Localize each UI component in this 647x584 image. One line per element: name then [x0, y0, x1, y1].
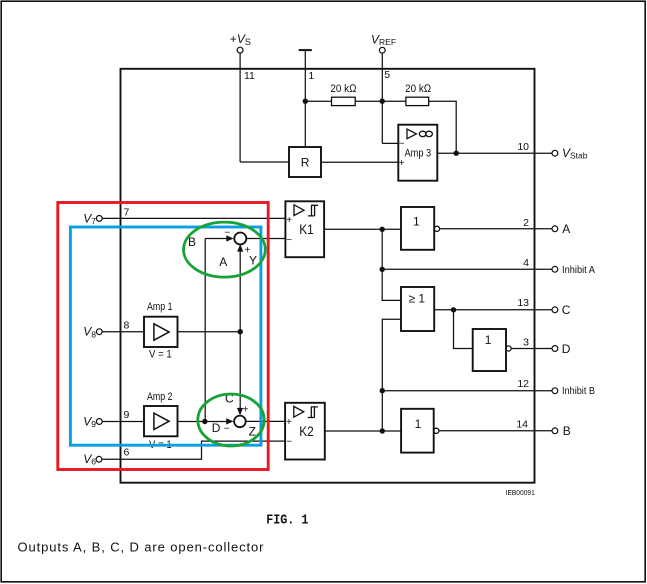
wire Vref to Amp3 minus input	[382, 142, 398, 144]
amplifier Amp2 box	[144, 406, 178, 436]
svg-text:−: −	[286, 437, 292, 448]
junction node Amp1 output	[238, 329, 243, 334]
svg-text:≥ 1: ≥ 1	[409, 292, 426, 306]
resistor R2 20k box	[406, 97, 429, 105]
wire V8 input pin 8	[102, 331, 144, 333]
svg-text:Inhibit B: Inhibit B	[562, 385, 595, 397]
svg-text:−: −	[286, 235, 292, 246]
svg-text:1: 1	[308, 70, 314, 82]
wire inhibit B to pin 12	[382, 390, 552, 392]
amplifier Amp1 box	[144, 317, 178, 347]
Amp3 infinity symbol	[419, 131, 426, 136]
svg-text:Amp 3: Amp 3	[405, 147, 432, 159]
terminal inhibit B pin 12	[552, 388, 558, 394]
svg-text:4: 4	[523, 257, 529, 269]
K2 triangle symbol	[294, 406, 304, 417]
wire Amp3 output pin 10	[437, 152, 552, 154]
svg-text:C: C	[562, 303, 571, 317]
terminal Vstab pin 10	[552, 150, 558, 156]
svg-text:D: D	[212, 421, 221, 435]
svg-text:6: 6	[124, 446, 130, 458]
junction node K2 output	[380, 428, 385, 433]
svg-text:IEB00091: IEB00091	[506, 488, 535, 497]
terminal D pin 3	[552, 346, 558, 352]
svg-text:D: D	[562, 342, 571, 356]
K1 hysteresis step symbol	[308, 205, 318, 216]
svg-text:Amp 1: Amp 1	[147, 301, 173, 313]
wire node1 to resistor R1	[305, 100, 331, 102]
svg-text:8: 8	[124, 319, 130, 331]
wire bus OR gate bottom input down to K2 output	[382, 319, 401, 431]
Amp3 triangle symbol	[407, 129, 416, 139]
wire Amp1 output to A/C vertical	[178, 331, 241, 333]
svg-text:+: +	[286, 417, 292, 428]
svg-text:5: 5	[384, 69, 390, 81]
wire gate 1A output to pin 2	[440, 228, 552, 230]
terminal +Vs	[237, 47, 243, 53]
arrowhead B into node Y	[226, 235, 233, 241]
green overlay ellipse around node Y	[184, 222, 266, 277]
svg-text:K1: K1	[299, 221, 314, 237]
terminal V9	[96, 419, 102, 425]
OR gate >=1 box	[401, 287, 434, 331]
junction node inhibit B	[380, 388, 385, 393]
wire Vref vertical pin 5	[381, 53, 383, 143]
wire node Z to K2 plus	[246, 420, 285, 422]
Amp1 triangle symbol	[154, 324, 169, 340]
svg-text:FIG. 1: FIG. 1	[266, 514, 308, 529]
svg-text:20 kΩ: 20 kΩ	[405, 83, 432, 95]
wire K1 output to gate 1A	[324, 228, 401, 230]
wire B vertical from node Y to Amp2 output	[204, 239, 206, 422]
svg-text:13: 13	[517, 297, 529, 309]
svg-text:A: A	[562, 222, 570, 236]
junction node K1 output	[380, 227, 385, 232]
wire V7 input pin 7 to K1 plus	[102, 217, 285, 219]
wire node Y to K1 minus	[247, 238, 285, 240]
svg-text:2: 2	[523, 217, 529, 229]
svg-text:7: 7	[124, 206, 130, 218]
svg-text:Outputs A, B, C, D are open-co: Outputs A, B, C, D are open-collector	[18, 540, 265, 555]
IC outline box	[121, 69, 535, 483]
svg-text:−: −	[399, 139, 405, 150]
gate 1A output bubble	[434, 226, 439, 231]
svg-text:Amp 2: Amp 2	[147, 391, 173, 403]
wire pin11 to R	[240, 161, 289, 163]
op-amp Amp3 box	[398, 125, 437, 181]
gate 1 (D) box	[473, 329, 506, 371]
svg-text:12: 12	[517, 378, 529, 390]
terminal A pin 2	[552, 226, 558, 232]
junction node Amp2 output	[202, 419, 207, 424]
terminal V6	[96, 456, 102, 462]
wire K2 output to gate 1B	[325, 430, 401, 432]
red overlay rectangle	[58, 203, 268, 470]
wire +Vs vertical pin 11	[239, 53, 241, 162]
svg-text:+: +	[286, 215, 292, 226]
K1 triangle symbol	[294, 205, 304, 216]
svg-text:+: +	[243, 404, 249, 415]
terminal C pin 13	[552, 307, 558, 313]
svg-text:10: 10	[517, 141, 529, 153]
wire pin 1 vertical	[304, 50, 306, 147]
svg-text:Inhibit A: Inhibit A	[562, 264, 595, 276]
junction node pin1/resistors	[303, 99, 308, 104]
terminal B pin 14	[552, 428, 558, 434]
arrowhead D into node Z	[226, 418, 233, 424]
resistor R box	[289, 147, 321, 177]
pin 1 top bar	[299, 49, 312, 51]
wire Amp2 output to D arrow into node Z	[178, 421, 228, 423]
svg-text:−: −	[224, 423, 230, 434]
terminal V8	[96, 329, 102, 335]
svg-text:V = 1: V = 1	[149, 349, 172, 361]
wire V6 input pin 6 to K2 minus	[102, 441, 285, 459]
wire A/C vertical between node Y and node Z	[239, 247, 241, 415]
wire bus K1 output down to OR gate top input	[382, 229, 401, 300]
terminal inhibit A pin 4	[552, 266, 558, 272]
wire R output to Amp3 plus input	[321, 161, 398, 163]
junction node OR output	[451, 307, 456, 312]
svg-text:11: 11	[244, 70, 255, 82]
gate 1 (A) box	[401, 207, 434, 250]
svg-text:+: +	[399, 158, 405, 169]
svg-text:14: 14	[516, 419, 528, 431]
blue overlay rectangle	[70, 227, 261, 445]
green overlay ellipse around node Z	[198, 394, 264, 446]
Amp2 triangle symbol	[154, 413, 169, 429]
wire gate 1D output to pin 3	[511, 348, 552, 350]
svg-text:−: −	[224, 227, 230, 238]
svg-text:1: 1	[413, 214, 420, 228]
svg-text:9: 9	[124, 409, 130, 421]
K2 hysteresis step symbol	[308, 407, 318, 418]
junction node inhibit A	[380, 267, 385, 272]
gate 1 (B) box	[401, 409, 434, 453]
wire OR output down to gate 1D	[454, 310, 473, 349]
arrowhead C down into node Z	[237, 408, 243, 415]
svg-text:B: B	[563, 424, 571, 438]
terminal Vref	[379, 47, 385, 53]
svg-text:3: 3	[523, 337, 529, 349]
gate 1D output bubble	[506, 346, 511, 351]
svg-text:A: A	[219, 255, 227, 269]
terminal V7	[96, 216, 102, 222]
resistor R1 20k box	[332, 97, 356, 105]
wire R2 to corner down to Amp3 output	[429, 101, 457, 153]
svg-text:1: 1	[415, 417, 422, 431]
wire inhibit A to pin 4	[382, 268, 552, 270]
arrowhead A up into node Y	[237, 244, 243, 251]
comparator K2 box	[285, 403, 325, 460]
wire OR output to pin 13	[434, 309, 552, 311]
wire B arrow into node Y	[205, 238, 227, 240]
junction node Amp3 output	[454, 151, 459, 156]
svg-text:R: R	[301, 155, 310, 169]
svg-text:K2: K2	[299, 423, 314, 439]
svg-text:1: 1	[485, 333, 492, 347]
summing node Y circle	[234, 233, 246, 245]
wire R1 to node5	[355, 100, 406, 102]
gate 1B output bubble	[434, 428, 439, 433]
summing node Z circle	[234, 416, 246, 428]
junction node Vref/resistors	[380, 99, 385, 104]
wire gate 1B output to pin 14	[439, 430, 552, 432]
comparator K1 box	[285, 201, 324, 257]
svg-text:20 kΩ: 20 kΩ	[330, 83, 357, 95]
wire V9 input pin 9	[102, 421, 144, 423]
